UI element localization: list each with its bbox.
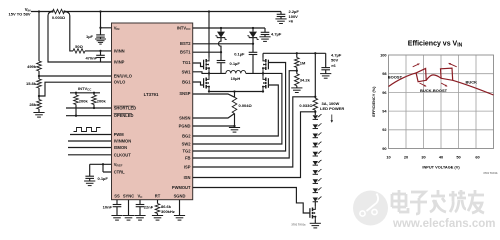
svg-text:30: 30 <box>421 155 425 160</box>
capacitor C5 10nF on SS <box>116 200 118 216</box>
resistor R9 86.6k on RT <box>157 200 159 216</box>
svg-text:BUCK: BUCK <box>466 79 478 84</box>
capacitor C8 0.1uF BST1 <box>220 52 222 73</box>
svg-text:4.7µF: 4.7µF <box>271 32 282 37</box>
resistor R6 28k <box>37 100 42 110</box>
wire FB staircase <box>193 71 297 158</box>
chart curve boost segment <box>389 73 417 87</box>
svg-text:90: 90 <box>382 146 386 151</box>
svg-text:BG2: BG2 <box>182 134 191 139</box>
transistor Q1 TG1 NMOS <box>205 59 207 63</box>
svg-text:BUCK-BOOST: BUCK-BOOST <box>420 88 448 93</box>
chart curve buck hysteresis loop <box>441 68 453 80</box>
svg-text:10nF: 10nF <box>103 204 113 209</box>
svg-text:SGND: SGND <box>174 194 186 199</box>
ground under SS <box>111 215 122 217</box>
resistor R13 0.033 LED sense <box>313 98 318 110</box>
wire bottom sense line <box>209 91 263 93</box>
capacitor C9 0.1uF BST2 <box>252 44 254 74</box>
svg-text:Efficiency vs VIN: Efficiency vs VIN <box>408 41 463 49</box>
node EN junction <box>38 75 40 77</box>
svg-text:0.1µF: 0.1µF <box>98 176 109 181</box>
LED string D3-D11 <box>313 115 318 119</box>
capacitor C10 output 4.7uF x6 <box>325 53 327 73</box>
svg-text:BOOST: BOOST <box>388 75 403 80</box>
wire D2 to BST2 <box>252 38 254 44</box>
svg-text:IVINMON: IVINMON <box>114 139 132 144</box>
svg-text:60: 60 <box>475 155 479 160</box>
diode D1 boost left <box>220 28 222 32</box>
svg-text:3791 TA01a: 3791 TA01a <box>291 223 306 227</box>
watermark hanzi pseudo-glyphs <box>392 190 484 214</box>
svg-text:34.2k: 34.2k <box>300 77 311 82</box>
wire Q4 source to sense line <box>262 90 264 92</box>
wire PWMOUT staircase <box>193 188 310 214</box>
svg-text:100: 100 <box>380 52 387 57</box>
svg-text:SNSN: SNSN <box>179 116 190 121</box>
wire SW2 node <box>262 72 264 77</box>
svg-text:ISP: ISP <box>184 165 191 170</box>
svg-text:499k: 499k <box>27 64 37 69</box>
wire OPENLED <box>66 105 112 116</box>
svg-text:0.033Ω: 0.033Ω <box>299 103 313 108</box>
node OVLO junction <box>38 95 40 97</box>
svg-text:0.1µF: 0.1µF <box>230 61 241 66</box>
svg-text:EN/UVLO: EN/UVLO <box>114 74 133 79</box>
wire Q2 source to sense line <box>208 90 210 92</box>
svg-text:15V TO 58V: 15V TO 58V <box>9 12 31 17</box>
inductor L1 10uH <box>209 72 263 74</box>
svg-text:VC: VC <box>138 194 144 200</box>
wire VREF <box>90 163 112 165</box>
svg-text:TG2: TG2 <box>183 149 192 154</box>
transistor Q5 PWM dimming NMOS <box>312 208 314 212</box>
svg-text:×6: ×6 <box>331 63 336 68</box>
svg-text:22nF: 22nF <box>144 204 154 209</box>
svg-text:0.1µF: 0.1µF <box>234 51 245 56</box>
svg-text:PGND: PGND <box>179 124 191 129</box>
svg-text:SW1: SW1 <box>182 69 192 74</box>
capacitor C1 1uF <box>100 28 102 39</box>
wire IVINMON <box>68 140 112 142</box>
transistor Q3 TG2 NMOS <box>265 59 267 63</box>
ground under C1 <box>95 38 106 40</box>
svg-text:IVINP: IVINP <box>114 60 125 65</box>
svg-text:28k: 28k <box>29 102 36 107</box>
svg-text:SNSP: SNSP <box>179 91 190 96</box>
ground under SYNC <box>123 215 134 217</box>
svg-text:ISN: ISN <box>184 175 191 180</box>
svg-text:EFFICIENCY (%): EFFICIENCY (%) <box>371 86 376 117</box>
wire BG1 gate <box>193 82 204 85</box>
svg-text:×6: ×6 <box>289 18 294 23</box>
resistor R10 0.004 sense <box>234 92 236 98</box>
svg-text:1µF: 1µF <box>86 34 94 39</box>
transistor Q2 BG1 NMOS <box>205 78 207 82</box>
transistor Q4 BG2 NMOS <box>265 78 267 82</box>
svg-text:10: 10 <box>386 155 390 160</box>
svg-text:0.004Ω: 0.004Ω <box>239 103 253 108</box>
svg-text:200k: 200k <box>97 98 107 103</box>
ground under RT <box>152 215 163 217</box>
chart grid <box>389 55 494 149</box>
svg-text:3791 TA01b: 3791 TA01b <box>483 171 498 175</box>
wire ISP staircase <box>193 97 316 167</box>
wire sense to PGND <box>234 114 236 127</box>
wire LED feed drop <box>314 53 316 98</box>
ground under SGND <box>174 215 185 217</box>
svg-text:BST1: BST1 <box>180 50 191 55</box>
svg-text:TG1: TG1 <box>183 60 192 65</box>
svg-text:BST2: BST2 <box>180 41 191 46</box>
wire SNSP kelvin <box>193 94 235 97</box>
svg-text:LED POWER: LED POWER <box>320 106 344 111</box>
ground under C7 <box>259 36 270 38</box>
resistor R3 50 <box>73 49 85 53</box>
chart arrows <box>413 64 420 67</box>
svg-text:40: 40 <box>439 155 443 160</box>
svg-text:VREF: VREF <box>114 162 123 168</box>
wire OVLO <box>39 82 112 96</box>
svg-text:FB: FB <box>185 156 191 161</box>
svg-text:0.003Ω: 0.003Ω <box>52 15 66 20</box>
svg-text:VIN: VIN <box>114 26 120 32</box>
svg-text:20: 20 <box>404 155 408 160</box>
wire SW1 node <box>193 72 209 77</box>
svg-text:SYNC: SYNC <box>123 194 134 199</box>
capacitor C7 4.7uF INTVCC <box>264 28 266 37</box>
wire CTRL tie <box>103 164 112 172</box>
wire TG2 gate staircase <box>193 63 286 152</box>
svg-text:BG1: BG1 <box>182 80 191 85</box>
ground power stage <box>229 127 240 129</box>
node junction VIN-pin <box>99 10 101 12</box>
wire PGND <box>193 125 235 127</box>
wire INTVCC rail stub <box>70 92 100 94</box>
wire TG1 gate <box>193 63 204 67</box>
node junction VIN-divider <box>38 10 40 12</box>
wire D1 to BST1 with hop <box>219 38 221 53</box>
svg-text:RT: RT <box>155 194 161 199</box>
wire VIN to Q1 drain <box>208 12 210 58</box>
svg-text:PWMOUT: PWMOUT <box>172 185 191 190</box>
ground under C2 <box>275 18 286 20</box>
chart curve buck-boost hump <box>426 75 441 80</box>
wire SW2 staircase <box>193 73 282 144</box>
resistor R4 499k <box>37 61 42 71</box>
ground under divider <box>33 112 44 114</box>
wire ISMON <box>68 147 112 149</box>
wire SHORTLED <box>66 105 112 109</box>
ground under Q5 <box>310 222 321 224</box>
svg-text:ISMON: ISMON <box>114 145 127 150</box>
svg-text:INTVCC: INTVCC <box>177 26 191 32</box>
svg-text:50: 50 <box>456 155 460 160</box>
wire VIN pin drop <box>101 12 112 28</box>
svg-text:INPUT VOLTAGE (V): INPUT VOLTAGE (V) <box>422 165 460 170</box>
ground under C4 <box>84 180 95 182</box>
svg-text:50V: 50V <box>331 58 338 63</box>
svg-text:LT3791: LT3791 <box>144 92 159 97</box>
ground under C10 <box>320 73 331 75</box>
watermark logo circle <box>353 191 388 226</box>
svg-text:470nF: 470nF <box>85 55 97 60</box>
ground under VC <box>134 215 145 217</box>
wire kelvin left to IVINP <box>48 12 112 63</box>
svg-text:300kHz: 300kHz <box>161 209 175 214</box>
svg-text:SW2: SW2 <box>182 142 192 147</box>
resistor R8 200k <box>93 93 95 95</box>
wire CLKOUT <box>68 154 112 156</box>
capacitor C4 0.1uF <box>89 164 91 181</box>
resistor RS1 0.003 <box>53 9 65 13</box>
svg-text:www.elecfans.com: www.elecfans.com <box>392 218 495 230</box>
wire kelvin right to 50ohm <box>65 12 74 51</box>
wire SGND to ground <box>179 200 181 216</box>
resistor R5 15.8k <box>37 79 42 88</box>
wire BST1 <box>193 51 221 53</box>
wire divider drop <box>38 12 40 62</box>
wire INTVCC to cap <box>193 27 265 29</box>
node PWM waveform <box>74 128 101 132</box>
ground under R12 <box>291 87 302 89</box>
wire SYNC to ground <box>128 200 130 216</box>
chart curve boost hysteresis loop <box>416 68 426 81</box>
svg-text:1M: 1M <box>300 61 306 66</box>
diode D2 boost right <box>252 28 254 32</box>
capacitor C3 470nF <box>100 51 102 62</box>
svg-text:IVINN: IVINN <box>114 48 125 53</box>
svg-text:OVLO: OVLO <box>114 80 126 85</box>
wire SNSN kelvin <box>193 114 235 119</box>
wire PWM <box>70 134 112 136</box>
node junction VIN-leg <box>208 10 210 12</box>
svg-text:CTRL: CTRL <box>114 170 125 175</box>
wire Q5 source to ground <box>314 220 316 223</box>
wire VIN rail <box>31 11 281 13</box>
svg-text:200k: 200k <box>79 98 89 103</box>
wire ISN staircase <box>193 112 316 178</box>
capacitor C6 22nF on VC <box>139 200 141 216</box>
resistor R12 34.2k <box>296 71 298 88</box>
wire EN/UVLO <box>39 75 112 77</box>
svg-text:15.8k: 15.8k <box>26 81 37 86</box>
svg-text:CLKOUT: CLKOUT <box>114 152 132 157</box>
svg-text:10µH: 10µH <box>231 76 241 81</box>
wire BST2 <box>193 43 253 45</box>
wire Q3 drain to VOUT rail <box>262 53 264 57</box>
resistor R7 200k <box>75 93 77 95</box>
svg-text:50Ω: 50Ω <box>75 44 83 49</box>
capacitor C2 input 2.2uF x6 <box>280 12 282 19</box>
op-amp U1 LT3791 IC body <box>112 23 193 200</box>
wire BG2 gate staircase <box>193 85 279 136</box>
svg-text:SS: SS <box>114 194 120 199</box>
chart curve buck segment <box>453 80 494 95</box>
wire VOUT rail <box>263 52 326 54</box>
wire IVINN line <box>85 50 112 52</box>
svg-text:PWM: PWM <box>114 132 125 137</box>
resistor R11 1M <box>296 53 298 70</box>
svg-text:INTVCC: INTVCC <box>78 86 92 92</box>
